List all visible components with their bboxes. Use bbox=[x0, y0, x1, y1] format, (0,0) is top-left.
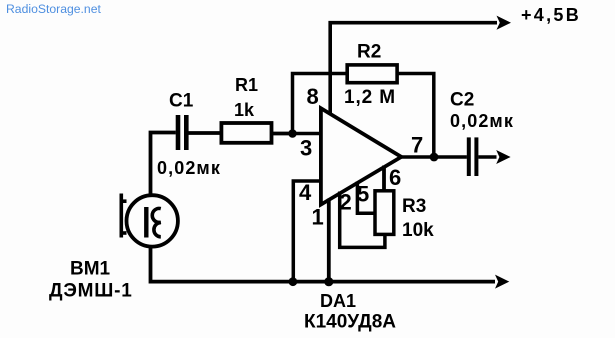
svg-text:10k: 10k bbox=[402, 220, 434, 241]
capacitor C1 bbox=[178, 115, 186, 150]
svg-text:1: 1 bbox=[312, 205, 324, 230]
svg-text:RadioStorage.net: RadioStorage.net bbox=[6, 2, 101, 16]
wire pin 3 input bbox=[293, 132, 321, 136]
microphone BM1 bbox=[127, 195, 178, 246]
node pin1 ground junction bbox=[324, 277, 333, 286]
pin 2 wire to R3 bottom bbox=[340, 192, 385, 248]
pin 1 wire bbox=[327, 199, 331, 282]
wire mic bottom to ground rail bbox=[151, 247, 496, 282]
wire R2 right lead down to output node bbox=[397, 74, 434, 158]
svg-text:R3: R3 bbox=[402, 196, 426, 217]
capacitor C2 bbox=[469, 137, 477, 176]
svg-text:1,2 М: 1,2 М bbox=[344, 87, 396, 108]
arrowhead output bbox=[496, 150, 510, 164]
mic coil epsilon bbox=[152, 208, 161, 236]
svg-text:8: 8 bbox=[307, 84, 319, 109]
wire mic to C1 bbox=[151, 133, 176, 196]
svg-text:C1: C1 bbox=[169, 91, 194, 112]
svg-text:0,02мк: 0,02мк bbox=[157, 158, 221, 178]
wire output to arrow bbox=[478, 155, 496, 159]
pin 4 wire bbox=[293, 181, 320, 281]
svg-text:R1: R1 bbox=[235, 75, 258, 95]
wire +4.5V top rail bbox=[330, 23, 497, 115]
svg-text:R2: R2 bbox=[357, 42, 381, 63]
arrowhead bottom rail bbox=[495, 275, 509, 289]
resistor R1 bbox=[221, 123, 271, 143]
svg-text:ДЭМШ-1: ДЭМШ-1 bbox=[49, 281, 133, 302]
node junction input bbox=[288, 129, 297, 138]
svg-text:+4,5В: +4,5В bbox=[521, 5, 581, 25]
arrowhead +4.5V rail bbox=[497, 16, 512, 30]
svg-text:1k: 1k bbox=[234, 100, 255, 120]
mic bracket bbox=[120, 194, 127, 238]
svg-text:К140УД8А: К140УД8А bbox=[304, 312, 396, 333]
svg-text:7: 7 bbox=[411, 133, 423, 158]
wire R2 left lead and feedback node riser bbox=[293, 74, 348, 134]
svg-text:C2: C2 bbox=[450, 90, 474, 111]
svg-text:2: 2 bbox=[340, 190, 352, 215]
wire C1 to R1 bbox=[189, 131, 222, 135]
svg-text:ВМ1: ВМ1 bbox=[70, 259, 111, 280]
node output junction bbox=[430, 153, 439, 162]
svg-text:6: 6 bbox=[389, 165, 401, 190]
wire output pin 7 bbox=[401, 155, 467, 159]
wire R1 to node bbox=[272, 132, 295, 136]
svg-text:0,02мк: 0,02мк bbox=[450, 111, 514, 131]
svg-text:DA1: DA1 bbox=[320, 291, 356, 311]
pin 5 wire bbox=[357, 182, 375, 214]
resistor R2 bbox=[347, 65, 397, 83]
resistor R3 bbox=[375, 191, 394, 235]
pin 6 wire bbox=[382, 166, 386, 192]
node pin4 ground junction bbox=[289, 277, 298, 286]
svg-text:5: 5 bbox=[357, 182, 369, 207]
svg-text:4: 4 bbox=[299, 180, 312, 205]
svg-text:3: 3 bbox=[300, 136, 312, 161]
op-amp DA1 triangle bbox=[321, 108, 401, 204]
mic coil bar bbox=[144, 207, 148, 238]
